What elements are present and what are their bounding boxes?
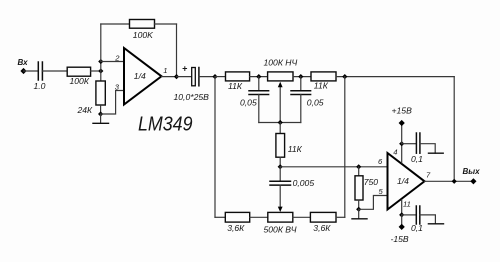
wire to cap 0,1 bottom bbox=[402, 214, 417, 216]
wire cap 0,1 top to ground bbox=[420, 144, 435, 154]
wire node to C2 bbox=[177, 76, 192, 78]
resistor 100K feedback bbox=[130, 20, 155, 29]
wire right loop vertical bbox=[344, 77, 346, 218]
svg-text:500К ВЧ: 500К ВЧ bbox=[264, 224, 297, 234]
wire input terminal to C1 bbox=[24, 70, 39, 72]
svg-text:0,05: 0,05 bbox=[240, 97, 257, 107]
node pin6/750 junction bbox=[356, 164, 361, 169]
svg-text:4: 4 bbox=[393, 148, 397, 157]
wire pin4 bbox=[401, 144, 403, 163]
svg-text:3,6К: 3,6К bbox=[313, 223, 331, 233]
capacitor 0,005 bbox=[279, 167, 281, 181]
svg-text:100K: 100K bbox=[133, 30, 154, 40]
ground bar bottom cap bbox=[428, 223, 443, 225]
wire op2 output bbox=[425, 180, 474, 182]
node input/24K junction bbox=[98, 68, 103, 73]
svg-text:0,05: 0,05 bbox=[307, 97, 324, 107]
wire feedback vertical right bbox=[176, 24, 178, 77]
node cap out / rails junction bbox=[212, 74, 217, 79]
wire 24K top bbox=[100, 71, 102, 80]
svg-text:1.0: 1.0 bbox=[34, 81, 46, 91]
node 11K/pot/cap left junction bbox=[256, 74, 261, 79]
potentiometer 500К ВЧ bbox=[268, 212, 293, 222]
pot 500К wiper arrow bbox=[279, 185, 281, 207]
svg-text:-15В: -15В bbox=[391, 234, 409, 244]
wire +15 terminal bbox=[401, 123, 403, 144]
svg-text:Вых: Вых bbox=[463, 167, 481, 176]
svg-text:100К НЧ: 100К НЧ bbox=[264, 57, 298, 67]
wire 750 bottom bbox=[358, 200, 360, 209]
wire C2 to rail node bbox=[199, 76, 215, 78]
wire feedback top left bbox=[101, 23, 130, 25]
wire feedback top right bbox=[155, 23, 177, 25]
resistor 3,6К left bbox=[225, 212, 249, 222]
op-amp U1a bbox=[124, 48, 162, 105]
wire 750 top bbox=[358, 167, 360, 176]
op-amp U1b bbox=[388, 153, 425, 210]
wire top rail seg2 bbox=[250, 76, 268, 78]
node Вых output terminal bbox=[470, 178, 476, 184]
wire pin11 bbox=[401, 200, 403, 215]
node pot/11K/cap right junction bbox=[298, 74, 303, 79]
resistor 3,6К right bbox=[310, 212, 336, 222]
node op1 out/feedback junction bbox=[174, 74, 179, 79]
resistor 750 bbox=[355, 176, 363, 200]
wire bottom rail seg1 bbox=[215, 216, 225, 218]
wire pin3 jog bbox=[101, 91, 124, 115]
node Вх input terminal bbox=[20, 68, 26, 74]
svg-text:11К: 11К bbox=[314, 81, 329, 91]
wire pin6 horizontal bbox=[280, 166, 387, 168]
svg-text:3,6К: 3,6К bbox=[227, 223, 245, 233]
capacitor 0,1 top bbox=[415, 133, 417, 153]
resistor 100K input bbox=[67, 67, 90, 76]
wire op1 output bbox=[162, 76, 177, 78]
capacitor 0,05 right bbox=[300, 77, 302, 91]
svg-text:11К: 11К bbox=[288, 144, 303, 154]
node pin11/-15/cap junction bbox=[399, 212, 404, 217]
svg-text:Вх: Вх bbox=[18, 58, 29, 67]
svg-text:750: 750 bbox=[364, 177, 379, 187]
node feedback/pin2 junction bbox=[98, 59, 103, 64]
svg-text:2: 2 bbox=[114, 53, 120, 62]
wire R100K to input node bbox=[91, 70, 101, 72]
wire cap 0,1 bottom to ground bbox=[420, 215, 436, 224]
svg-text:24К: 24К bbox=[77, 105, 94, 115]
svg-text:0,005: 0,005 bbox=[293, 178, 315, 188]
svg-text:11: 11 bbox=[403, 199, 411, 208]
wire -15 terminal bbox=[401, 215, 403, 227]
resistor 11K right bbox=[311, 72, 336, 81]
node pin4/+15/cap junction bbox=[399, 141, 404, 146]
node wiper/caps/11K junction bbox=[278, 120, 283, 125]
wire node up to pin2 node bbox=[100, 62, 102, 72]
wire top rail seg3 bbox=[293, 76, 311, 78]
node -15В terminal bbox=[399, 224, 405, 230]
wire top rail seg1 bbox=[215, 76, 226, 78]
capacitor 0,05 left bbox=[258, 77, 260, 91]
wire 11K mid bottom bbox=[279, 157, 281, 167]
ground bar top cap bbox=[429, 152, 444, 154]
wire bottom rail seg2 bbox=[250, 216, 268, 218]
node 750/ground/pin5 junction bbox=[356, 207, 361, 212]
wire 24K bottom bbox=[100, 106, 102, 114]
wire pin2 bbox=[101, 61, 124, 63]
wire pin5 route bbox=[359, 196, 388, 210]
node 11K/0,005/pin6 junction bbox=[278, 164, 283, 169]
capacitor 0,1 bottom bbox=[415, 206, 417, 224]
resistor 11K left bbox=[226, 72, 250, 81]
resistor 11K middle bbox=[276, 134, 285, 158]
svg-text:0,1: 0,1 bbox=[411, 154, 423, 164]
svg-text:1: 1 bbox=[163, 66, 167, 75]
capacitor 1.0 bbox=[37, 62, 39, 80]
wire left loop vertical bbox=[214, 77, 216, 218]
wire C1 to R 100K bbox=[42, 70, 66, 72]
node +15В terminal bbox=[399, 120, 405, 126]
svg-text:1/4: 1/4 bbox=[134, 71, 146, 81]
potentiometer 100К НЧ bbox=[268, 72, 293, 81]
wire feedback rail right vertical bbox=[453, 77, 455, 182]
svg-text:10,0*25В: 10,0*25В bbox=[174, 92, 210, 102]
svg-text:+: + bbox=[182, 63, 188, 73]
wire feedback vertical left bbox=[100, 24, 102, 62]
ground bbox=[100, 114, 102, 123]
wire caps bottom rail bbox=[259, 122, 301, 124]
node output/rail junction bbox=[452, 179, 457, 184]
wire bottom rail seg3 bbox=[293, 216, 311, 218]
wire to cap 0,1 top bbox=[402, 143, 417, 145]
pot 100К wiper arrow bbox=[279, 87, 281, 123]
svg-text:1/4: 1/4 bbox=[397, 176, 409, 186]
wire top rail seg4 bbox=[336, 76, 454, 78]
node 24K/pin3/ground junction bbox=[98, 111, 103, 116]
wire node to 11K mid bbox=[279, 123, 281, 134]
svg-text:0,1: 0,1 bbox=[411, 223, 423, 233]
svg-text:100К: 100К bbox=[70, 76, 90, 86]
node rail right junction bbox=[342, 74, 347, 79]
svg-text:LM349: LM349 bbox=[138, 114, 193, 136]
resistor 24K bbox=[96, 81, 105, 105]
wire bottom rail seg4 bbox=[336, 216, 345, 218]
ground under 750 bbox=[358, 209, 360, 219]
svg-text:+15В: +15В bbox=[392, 106, 413, 116]
svg-text:11К: 11К bbox=[228, 81, 243, 91]
